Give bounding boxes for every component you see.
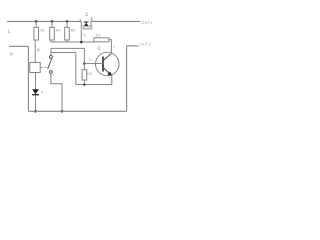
tick left of Z [79,19,81,22]
node dot R3 bottom [83,83,86,86]
svg-text:L: L [8,29,11,35]
wire relay coil to diode D [35,73,37,90]
svg-text:OUT2: OUT2 [140,42,152,47]
svg-text:1: 1 [53,73,55,77]
svg-text:e: e [108,75,110,79]
contact blade [48,59,52,69]
diode D cathode bar [32,94,39,96]
resistor R3 [82,70,87,80]
node dot W1/Z [80,41,83,44]
wire R1 stub [35,21,37,27]
contact terminal 1 circle [50,71,53,74]
wire diode D to bottom rail [35,95,37,111]
tick right of Z [91,17,93,22]
svg-text:Z: Z [85,12,88,18]
svg-text:b: b [90,58,92,62]
resistor R2 [94,38,109,42]
wire R4 down to W1 [50,40,52,42]
wire W2a contact to base column [51,48,84,63]
wire contact top vertical [50,48,52,55]
diode D triangle [32,89,39,94]
wire contact bottom [51,73,62,111]
svg-text:R2: R2 [96,34,101,38]
svg-text:OUT1: OUT1 [141,20,153,25]
transistor Q circle [96,52,120,76]
node dot R6 top [66,20,69,23]
node dot R4 top [51,20,54,23]
node dot diode bottom [34,110,37,113]
wire W2b [51,53,76,85]
svg-text:c: c [113,45,115,49]
top rail right segment to OUT1 [91,20,140,22]
resistor R1 [34,27,39,40]
Z left pin [80,21,82,26]
wire R6 stub [66,21,68,27]
diode of Z: stub [85,20,87,23]
wire base lead [84,63,103,65]
Z right pin [90,21,92,26]
svg-text:K: K [37,48,41,53]
wire W1 horizontal [51,41,94,43]
wire R4 stub [51,21,53,27]
wire R1 to relay coil [34,40,36,62]
node dot contact branch bottom [61,110,64,113]
relay coil K box [30,62,40,72]
svg-text:R3: R3 [87,72,92,76]
wire from Z box down to W1 [80,30,82,42]
svg-text:2: 2 [53,54,55,58]
resistor R4 [50,27,55,40]
wire R2 to collector [109,40,111,53]
node dot R1 top [35,20,38,23]
transistor base bar [102,57,104,72]
wire OUT2 vertical [126,46,128,111]
wire N down left side [27,46,29,111]
diode of Z: cathode bar [84,21,89,23]
svg-text:D: D [41,91,44,95]
wire base column to R3 [83,64,85,70]
transistor emitter diagonal [103,67,111,75]
svg-text:Q: Q [97,45,101,50]
top rail left segment (L line) [7,20,81,22]
wire N horizontal [9,45,28,47]
wire R3 bottom [83,80,85,85]
svg-text:R4: R4 [56,29,61,33]
transistor collector diagonal [103,54,111,61]
wire emitter down and left (loop bottom) [76,75,112,84]
wire R6 down to W1 [66,40,68,42]
Z body box [81,26,92,29]
svg-text:R1: R1 [40,29,45,33]
node dot base [83,62,86,65]
bottom rail [28,110,126,112]
svg-text:N: N [10,51,13,56]
svg-text:S: S [83,33,86,37]
resistor R6 [65,27,70,40]
svg-text:R6: R6 [71,29,76,33]
wire OUT2 horizontal [127,45,139,47]
contact terminal 2 circle [50,56,53,59]
dashed link relay to contact [41,66,49,68]
emitter arrowhead [107,72,112,76]
diode of Z: triangle [84,23,88,26]
